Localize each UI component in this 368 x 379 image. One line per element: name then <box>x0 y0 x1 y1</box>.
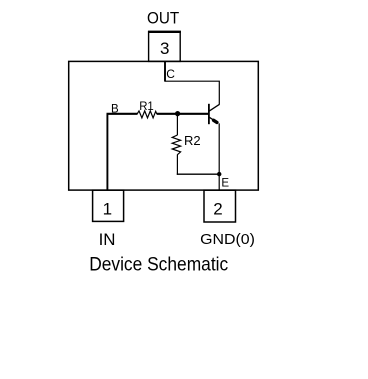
svg-text:1: 1 <box>103 199 112 218</box>
package outline box <box>69 61 259 190</box>
wire base horizontal right segment <box>157 113 210 115</box>
resistor R1 zigzag <box>137 111 157 118</box>
pin 2 box <box>204 190 236 222</box>
svg-text:R2: R2 <box>184 133 201 148</box>
wire collector L (stub to collector drop) <box>165 81 219 105</box>
wire pin3 stub (thick, from pin 3 into package) <box>164 61 166 81</box>
wire base horizontal left segment <box>107 113 138 115</box>
wire R2 bottom <box>176 155 178 175</box>
svg-text:IN: IN <box>99 231 116 249</box>
transistor Q1 emitter arrowhead <box>214 120 217 122</box>
svg-text:Device Schematic: Device Schematic <box>89 254 228 276</box>
svg-text:C: C <box>166 67 175 81</box>
transistor Q1 emitter arm <box>209 117 214 121</box>
svg-text:OUT: OUT <box>147 10 179 28</box>
svg-text:R1: R1 <box>139 101 154 113</box>
svg-text:E: E <box>221 178 229 190</box>
wire emitter vertical <box>218 123 220 190</box>
svg-text:3: 3 <box>160 39 169 58</box>
resistor R2 zigzag <box>172 135 180 155</box>
transistor Q1 base bar <box>208 104 210 124</box>
wire R2 top <box>176 114 178 135</box>
transistor Q1 collector arm <box>209 104 219 111</box>
svg-text:GND(0): GND(0) <box>200 231 255 248</box>
svg-text:2: 2 <box>213 199 222 218</box>
node emitter dot <box>217 172 221 176</box>
pin 3 box thick top edge <box>148 31 181 33</box>
pin 3 box <box>149 32 181 62</box>
wire base left vertical (B down to pin 1) <box>106 114 108 190</box>
node junction dot (base of R2) <box>175 111 180 116</box>
pin 1 box <box>93 190 124 221</box>
wire bottom horizontal (R2 to emitter) <box>177 173 219 175</box>
